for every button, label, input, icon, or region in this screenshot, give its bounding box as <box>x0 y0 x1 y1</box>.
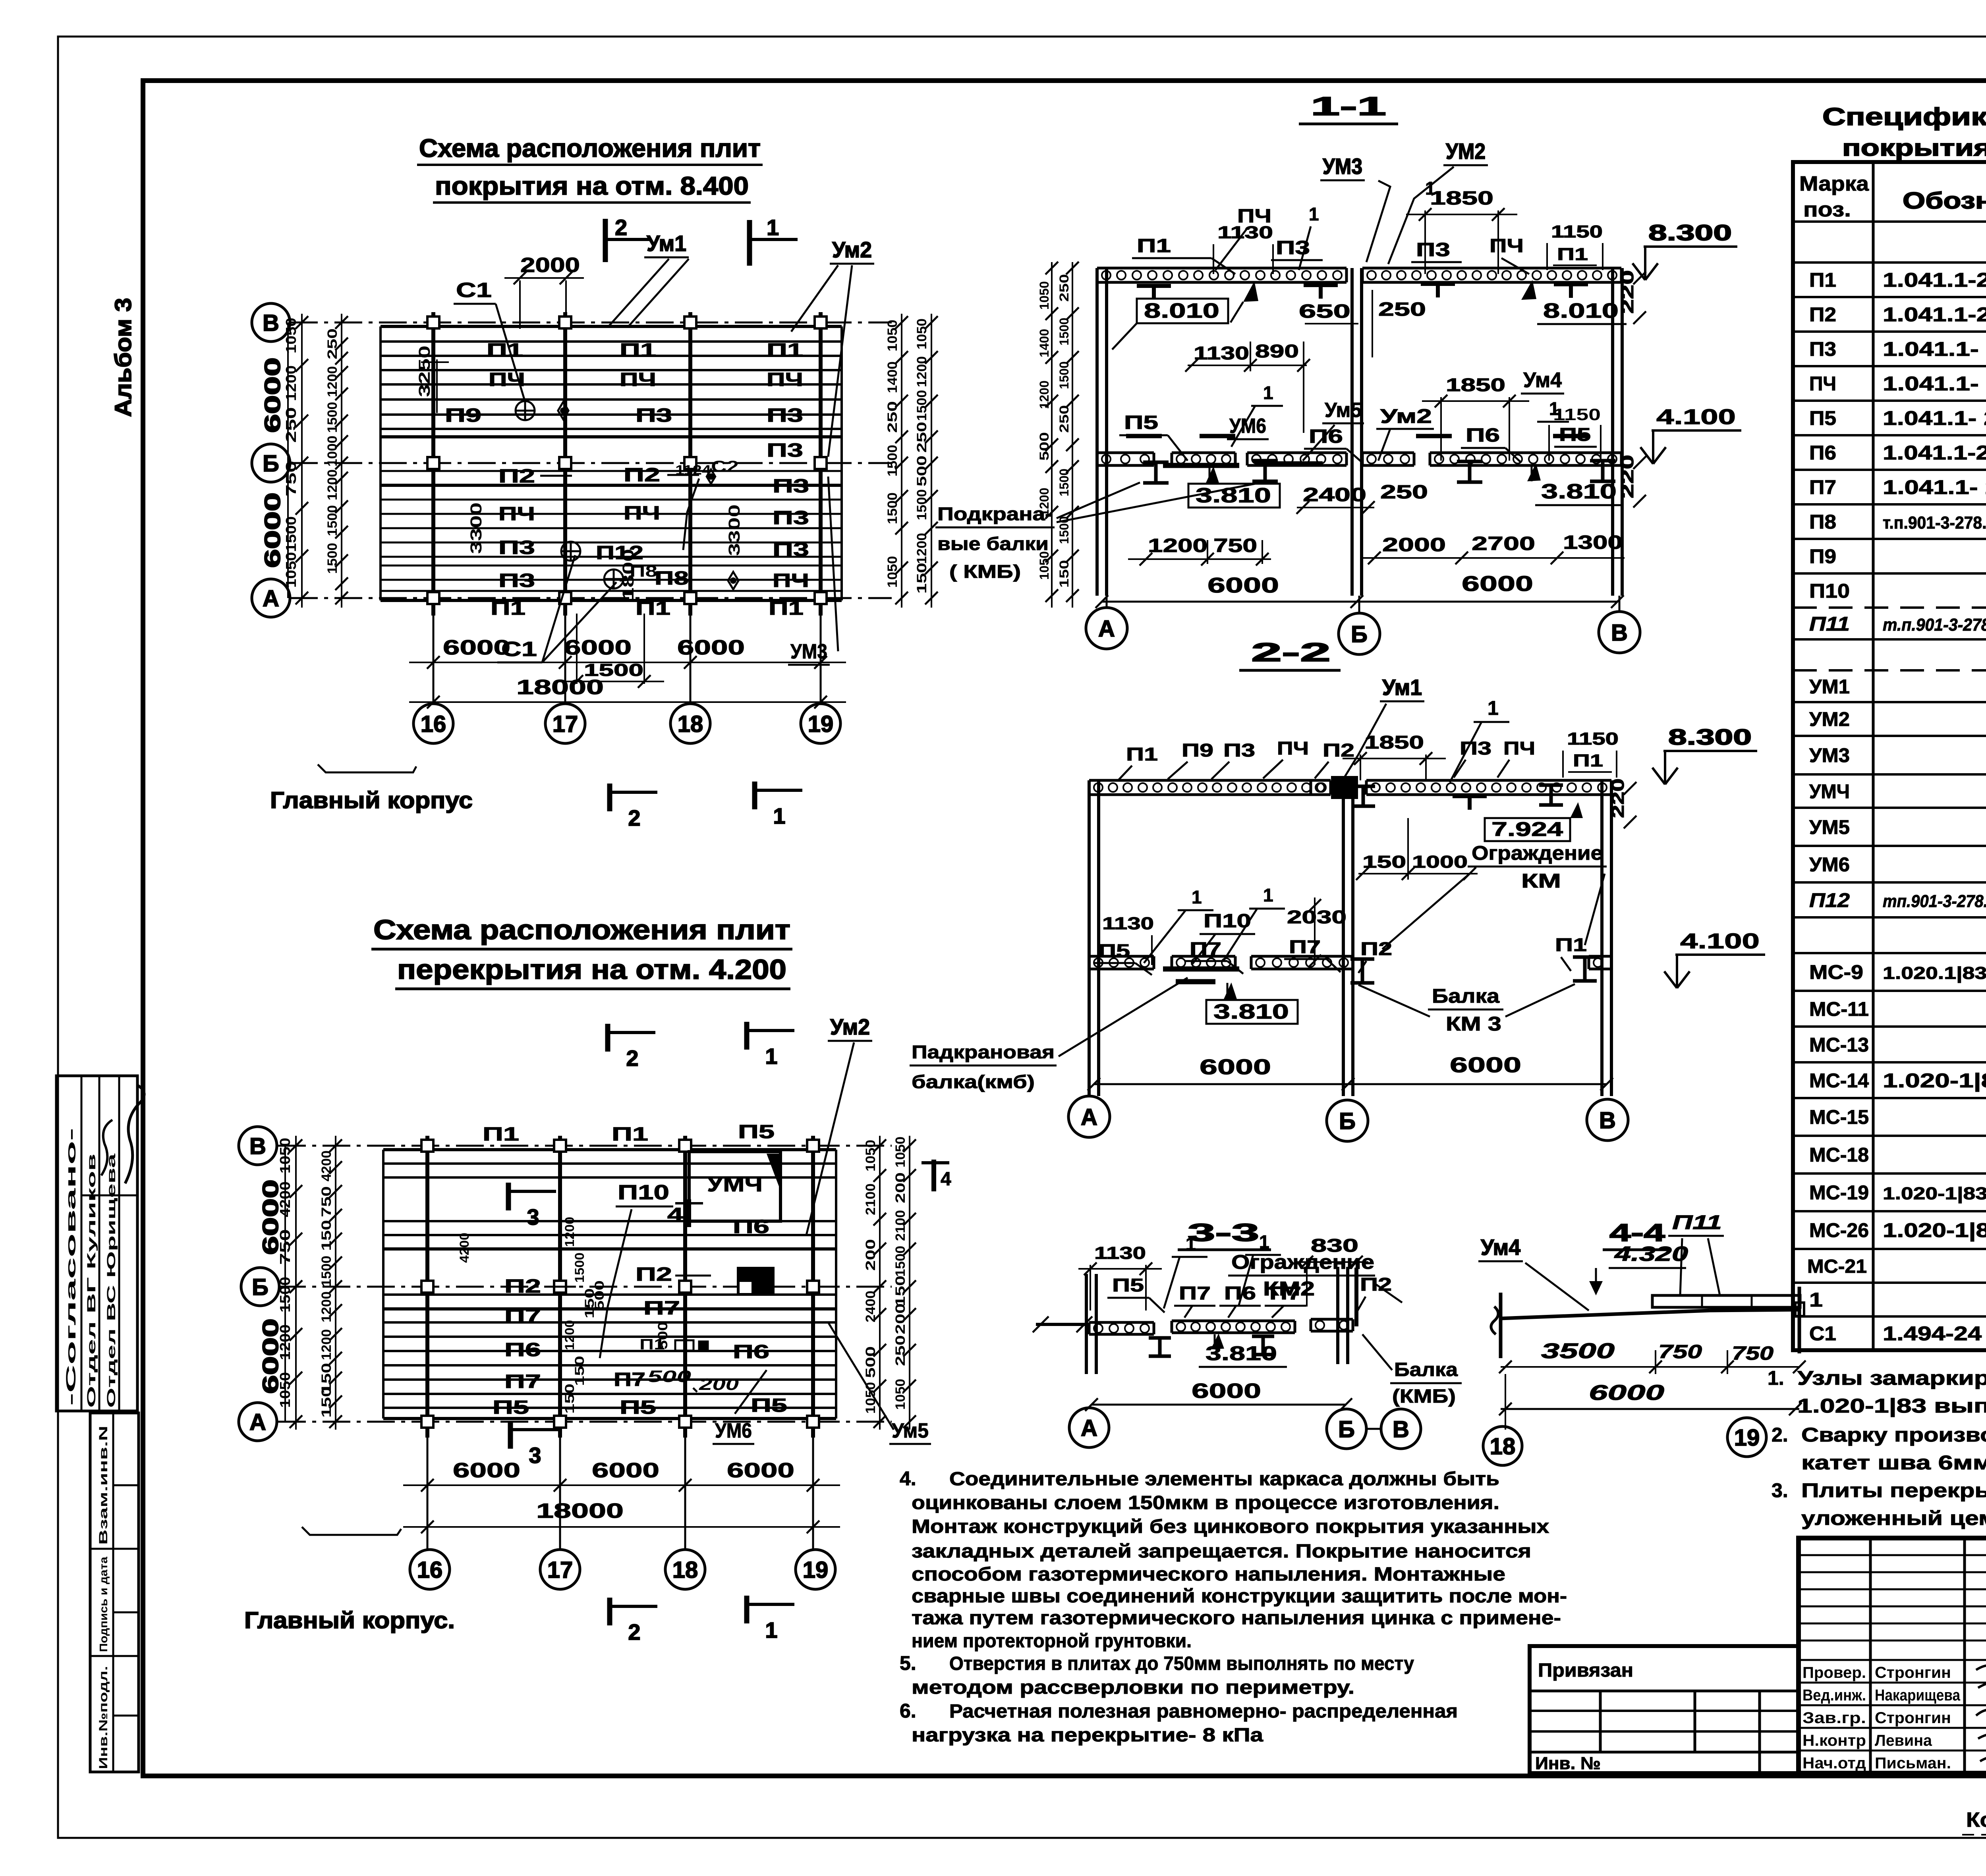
svg-text:П1: П1 <box>483 1124 519 1145</box>
svg-text:8.010: 8.010 <box>1144 299 1219 322</box>
svg-text:1300: 1300 <box>1563 532 1623 553</box>
svg-text:Б: Б <box>1339 1108 1356 1134</box>
svg-text:1500: 1500 <box>325 505 340 536</box>
svg-text:4.100: 4.100 <box>1680 929 1760 953</box>
svg-text:2030: 2030 <box>1287 907 1347 927</box>
svg-text:3300: 3300 <box>468 502 485 554</box>
svg-text:1130: 1130 <box>1094 1243 1146 1263</box>
svg-text:А: А <box>1081 1415 1097 1441</box>
svg-text:Копировал: Боброва: Копировал: Боброва <box>1966 1808 1986 1832</box>
svg-text:19: 19 <box>1734 1425 1760 1451</box>
svg-text:Б: Б <box>263 451 279 477</box>
attachment box (Привязан) <box>1530 1646 1799 1773</box>
plan 2 axis row А circle <box>239 1403 277 1441</box>
svg-text:6000: 6000 <box>1589 1381 1664 1405</box>
plan 2 Т4 section mark right <box>931 1160 936 1191</box>
svg-text:В: В <box>1393 1417 1409 1442</box>
svg-text:П3: П3 <box>498 570 535 591</box>
svg-text:2100: 2100 <box>893 1210 908 1241</box>
svg-text:2: 2 <box>628 805 640 830</box>
svg-text:4200: 4200 <box>319 1150 334 1181</box>
svg-text:А: А <box>263 586 279 612</box>
svg-text:500: 500 <box>863 1346 878 1378</box>
svg-text:200: 200 <box>893 1303 908 1334</box>
svg-text:1200: 1200 <box>562 1320 577 1350</box>
svg-text:1200: 1200 <box>319 1329 334 1360</box>
svg-text:17: 17 <box>547 1557 573 1583</box>
svg-text:Ум2: Ум2 <box>830 1014 870 1039</box>
svg-text:МС-21: МС-21 <box>1807 1256 1867 1277</box>
svg-text:покрытия и перекрытия на отм.8: покрытия и перекрытия на отм.8.400 и 4.2… <box>1842 135 1986 161</box>
svg-text:Ум5: Ум5 <box>892 1419 929 1442</box>
title block signatures squiggles <box>1976 1666 1986 1690</box>
svg-text:150: 150 <box>914 563 929 594</box>
svg-text:Ум4: Ум4 <box>1523 368 1562 392</box>
svg-text:1.041.1-2.1 200: 1.041.1-2.1 200 <box>1883 269 1986 291</box>
svg-text:1500: 1500 <box>885 445 900 477</box>
plan 2 bottom section mark 3 <box>508 1421 513 1449</box>
svg-text:750: 750 <box>319 1186 334 1217</box>
svg-text:Ум1: Ум1 <box>1382 675 1422 700</box>
svg-text:4: 4 <box>941 1169 951 1190</box>
svg-text:тажа путем газотермического: тажа путем газотермического напыления ци… <box>912 1608 1561 1629</box>
svg-text:1850: 1850 <box>1446 374 1505 395</box>
svg-text:П5: П5 <box>751 1395 787 1416</box>
svg-text:1: 1 <box>1263 382 1273 403</box>
svg-text:П12: П12 <box>1809 889 1850 911</box>
svg-text:250: 250 <box>325 328 340 359</box>
svg-text:Главный корпус.: Главный корпус. <box>244 1608 455 1633</box>
svg-text:-Согласовано-: -Согласовано- <box>64 1128 79 1406</box>
svg-text:3500: 3500 <box>1541 1339 1615 1363</box>
svg-text:2-2: 2-2 <box>1251 637 1331 667</box>
svg-text:сварные швы соединений конс: сварные швы соединений конструкции защит… <box>912 1586 1567 1607</box>
plan 2 grid column lines 16-19 <box>425 1136 429 1438</box>
svg-text:8.010: 8.010 <box>1543 299 1619 322</box>
section 3-3 slab band <box>1089 1321 1154 1324</box>
svg-text:ПЧ: ПЧ <box>498 504 535 525</box>
svg-text:1200: 1200 <box>914 533 929 564</box>
svg-text:ПЧ: ПЧ <box>1237 206 1271 227</box>
svg-text:Ум1: Ум1 <box>647 231 686 256</box>
svg-text:500: 500 <box>914 455 929 486</box>
svg-text:П6: П6 <box>504 1339 541 1361</box>
svg-text:18: 18 <box>678 711 703 737</box>
svg-text:С1: С1 <box>456 279 492 302</box>
svg-text:1: 1 <box>765 1617 777 1642</box>
svg-text:1.020-1|83 7-1 050: 1.020-1|83 7-1 050 <box>1883 1069 1986 1092</box>
svg-text:МС-18: МС-18 <box>1809 1144 1869 1166</box>
svg-text:6000: 6000 <box>1200 1055 1271 1079</box>
svg-text:1050: 1050 <box>1037 281 1051 310</box>
svg-text:3: 3 <box>529 1443 541 1468</box>
svg-text:1: 1 <box>1488 697 1499 719</box>
svg-text:П7: П7 <box>1269 1283 1301 1303</box>
svg-text:Схема расположения плит: Схема расположения плит <box>373 914 790 945</box>
svg-text:150: 150 <box>572 1356 587 1386</box>
svg-text:1200: 1200 <box>1037 488 1051 516</box>
section 2-2 top slab band <box>1089 779 1331 782</box>
svg-text:Отдел ВГ Куликов: Отдел ВГ Куликов <box>85 1154 98 1408</box>
svg-text:П3: П3 <box>767 405 803 426</box>
svg-text:1500: 1500 <box>572 1253 587 1283</box>
svg-text:П3: П3 <box>767 440 803 461</box>
svg-text:балка(кмб): балка(кмб) <box>912 1071 1035 1092</box>
svg-text:1.020-1|83 7-1 050-02: 1.020-1|83 7-1 050-02 <box>1883 1184 1986 1204</box>
svg-text:6000: 6000 <box>260 357 285 433</box>
svg-text:П7: П7 <box>643 1298 680 1319</box>
svg-text:поз.: поз. <box>1803 198 1851 221</box>
svg-text:1124: 1124 <box>675 463 711 478</box>
svg-text:1000: 1000 <box>325 436 340 467</box>
svg-text:П6: П6 <box>1309 426 1343 447</box>
section 4-4 right post <box>1798 1287 1801 1353</box>
svg-text:П8: П8 <box>1809 511 1836 533</box>
section 1-1 heavy beams under mid slab <box>1163 463 1239 468</box>
title block left rows thin <box>1799 1554 1986 1556</box>
svg-text:Зав.гр.: Зав.гр. <box>1802 1709 1866 1727</box>
svg-text:П7: П7 <box>504 1306 541 1327</box>
svg-text:4.: 4. <box>900 1467 916 1490</box>
svg-text:УМ1: УМ1 <box>1809 676 1850 698</box>
svg-text:750: 750 <box>283 461 299 496</box>
svg-text:В: В <box>1599 1108 1616 1133</box>
svg-text:П3: П3 <box>1460 738 1491 759</box>
svg-text:П3: П3 <box>1809 338 1836 360</box>
svg-text:4.320: 4.320 <box>1614 1243 1688 1266</box>
svg-text:1: 1 <box>773 803 785 828</box>
svg-text:Привязан: Привязан <box>1538 1660 1633 1681</box>
svg-text:Вед.инж.: Вед.инж. <box>1802 1687 1866 1704</box>
section 1-1 mid slab band <box>1097 452 1154 454</box>
svg-text:6000: 6000 <box>1207 573 1279 597</box>
svg-text:150: 150 <box>562 1384 577 1414</box>
plan 2 left dimension chains <box>295 1136 297 1430</box>
plan 2 section mark 1 (top) <box>744 1022 750 1050</box>
svg-text:П1: П1 <box>491 598 525 619</box>
svg-text:6000: 6000 <box>564 636 632 659</box>
svg-text:А: А <box>1081 1104 1097 1130</box>
section 1-1 T-seats under top slab <box>1137 284 1171 288</box>
svg-text:П2: П2 <box>1360 938 1392 959</box>
svg-text:Стронгин: Стронгин <box>1875 1664 1951 1681</box>
svg-text:тп.901-3-278.89КЖИ90.0.0.0-8: тп.901-3-278.89КЖИ90.0.0.0-8 <box>1883 892 1986 911</box>
section 4-4 beam line <box>1501 1310 1710 1318</box>
svg-text:6000: 6000 <box>1450 1053 1521 1077</box>
svg-text:1400: 1400 <box>1037 329 1051 357</box>
svg-text:6000: 6000 <box>258 1179 283 1255</box>
svg-text:Подпись и дата: Подпись и дата <box>97 1557 110 1652</box>
svg-text:1-1: 1-1 <box>1311 91 1386 121</box>
plan 1 axis row chain lines <box>290 322 892 324</box>
svg-text:МС-9: МС-9 <box>1809 961 1863 983</box>
svg-text:1050: 1050 <box>863 1382 878 1414</box>
section 2-2 mid slab band (left half) <box>1089 955 1154 958</box>
svg-text:Балка: Балка <box>1394 1359 1458 1380</box>
svg-text:220: 220 <box>1618 455 1637 498</box>
svg-text:П9: П9 <box>445 405 481 426</box>
section 1-1 top slab band <box>1097 267 1347 270</box>
svg-text:П1: П1 <box>612 1124 648 1145</box>
svg-text:2: 2 <box>628 1619 640 1644</box>
svg-text:6000: 6000 <box>260 492 285 568</box>
plan 1 axis row B circle <box>252 303 290 342</box>
svg-text:1500: 1500 <box>893 1246 908 1277</box>
svg-text:1050: 1050 <box>914 318 929 349</box>
svg-text:1200: 1200 <box>325 469 340 500</box>
svg-text:ПЧ: ПЧ <box>620 369 656 390</box>
svg-text:Спецификация к схеме расположе: Спецификация к схеме расположения плит <box>1822 103 1986 131</box>
plan 2 axis row Б circle <box>241 1268 279 1306</box>
svg-text:Отдел ВС Юрищева: Отдел ВС Юрищева <box>105 1153 118 1408</box>
svg-text:1: 1 <box>767 215 779 240</box>
svg-text:500: 500 <box>647 1367 691 1386</box>
svg-text:1850: 1850 <box>1364 732 1424 753</box>
svg-text:УМ2: УМ2 <box>1809 708 1850 730</box>
svg-text:1130: 1130 <box>1194 343 1249 363</box>
plan 2 bottom section marks 2 and 1 <box>607 1598 612 1625</box>
svg-text:КМ 3: КМ 3 <box>1446 1013 1501 1035</box>
svg-text:П10: П10 <box>1204 911 1251 932</box>
section 2-2 heavy beams under mid slab <box>1163 967 1239 972</box>
svg-text:П11: П11 <box>1809 613 1850 635</box>
svg-text:220: 220 <box>1618 270 1637 314</box>
svg-text:Монтаж конструкций без цинко: Монтаж конструкций без цинкового покрыти… <box>912 1516 1549 1537</box>
svg-text:МС-19: МС-19 <box>1809 1181 1869 1204</box>
svg-text:П1: П1 <box>1137 235 1171 257</box>
svg-text:250: 250 <box>283 407 299 443</box>
svg-text:1500: 1500 <box>325 402 340 433</box>
svg-text:150: 150 <box>1362 852 1406 872</box>
svg-text:1: 1 <box>765 1044 777 1069</box>
title block main box <box>1799 1538 1986 1773</box>
svg-text:П3: П3 <box>1416 239 1450 261</box>
svg-text:перекрытия на отм. 4.200: перекрытия на отм. 4.200 <box>397 954 786 985</box>
plan 2 black opening symbol <box>737 1267 775 1295</box>
svg-text:ПЧ: ПЧ <box>1809 372 1836 395</box>
svg-text:1500: 1500 <box>325 543 340 574</box>
svg-text:1200: 1200 <box>914 356 929 387</box>
plan 1 column squares at grid intersections <box>427 317 439 328</box>
svg-text:1050: 1050 <box>1037 551 1051 580</box>
svg-text:220: 220 <box>1608 778 1628 818</box>
plan 2 column squares <box>421 1140 433 1152</box>
svg-text:6000: 6000 <box>677 636 745 659</box>
svg-text:6000: 6000 <box>443 636 510 659</box>
svg-text:Б: Б <box>1338 1417 1355 1442</box>
svg-text:П9: П9 <box>1809 545 1836 567</box>
svg-text:Б: Б <box>1351 621 1368 647</box>
svg-text:1: 1 <box>1809 1289 1823 1311</box>
section 2-2 axis circles А Б В <box>1068 1096 1110 1137</box>
svg-text:П3: П3 <box>498 537 535 558</box>
section 2-2 monolith block at Ум1 <box>1333 778 1356 797</box>
svg-text:18000: 18000 <box>536 1500 624 1523</box>
svg-text:1050: 1050 <box>283 318 299 353</box>
approval signatures squiggle <box>125 1085 144 1183</box>
svg-text:500: 500 <box>592 1280 607 1310</box>
svg-text:1500: 1500 <box>1057 318 1071 345</box>
section 2-2 right railing I-beams <box>1350 957 1374 961</box>
inventory strip box (Инв №, Подпись, Взам) <box>90 1413 139 1772</box>
svg-text:Плиты перекрытия и покрытця: Плиты перекрытия и покрытця укладывать н… <box>1801 1479 1986 1502</box>
plan 2 slab field horizontal lines <box>383 1148 836 1151</box>
svg-text:6000: 6000 <box>1192 1380 1261 1403</box>
svg-text:3.: 3. <box>1772 1479 1788 1502</box>
svg-text:4.100: 4.100 <box>1656 405 1736 429</box>
svg-text:Падкрановая: Падкрановая <box>912 1042 1055 1062</box>
svg-text:уложенный цементный раствор: уложенный цементный раствор марки 100. <box>1801 1507 1986 1529</box>
svg-text:П6: П6 <box>1224 1283 1256 1303</box>
svg-text:3300: 3300 <box>726 504 743 556</box>
svg-text:250: 250 <box>1057 274 1071 302</box>
svg-text:нагрузка на перекрытие- 8 к: нагрузка на перекрытие- 8 кПа <box>912 1725 1263 1746</box>
svg-text:1200: 1200 <box>562 1217 577 1247</box>
svg-text:МС-14: МС-14 <box>1809 1069 1869 1092</box>
svg-text:3250: 3250 <box>416 345 433 397</box>
svg-text:18000: 18000 <box>516 676 604 699</box>
svg-text:1050: 1050 <box>885 320 900 351</box>
section 1-1 columns <box>1095 268 1099 596</box>
svg-text:1500: 1500 <box>1057 469 1071 496</box>
svg-text:890: 890 <box>1255 341 1299 361</box>
svg-text:П5: П5 <box>738 1121 775 1143</box>
plan 1 section mark 1 (top) <box>747 220 752 266</box>
svg-text:ПЧ: ПЧ <box>1277 738 1309 759</box>
svg-text:1050: 1050 <box>893 1379 908 1410</box>
plan 1 slab field horizontal lines <box>381 325 842 328</box>
title block column lines <box>1869 1538 1872 1773</box>
svg-text:17: 17 <box>553 711 578 737</box>
svg-text:16: 16 <box>421 711 446 737</box>
svg-text:Соединительные элементы карк: Соединительные элементы каркаса должны б… <box>949 1469 1499 1490</box>
svg-text:С2: С2 <box>711 458 739 475</box>
svg-text:Обозначение: Обозначение <box>1903 188 1986 214</box>
svg-text:ПЧ: ПЧ <box>767 369 803 390</box>
svg-text:1.041.1- 2.1 100-02: 1.041.1- 2.1 100-02 <box>1883 476 1986 498</box>
plan 1 left dimension chain verticals <box>301 314 303 608</box>
svg-text:А: А <box>249 1409 266 1435</box>
svg-text:П2: П2 <box>624 465 660 486</box>
section 4-4 left post anchor <box>1499 1293 1503 1358</box>
svg-text:1850: 1850 <box>1430 188 1493 209</box>
svg-text:1.020.1|83 7-1 030-01: 1.020.1|83 7-1 030-01 <box>1883 963 1986 983</box>
svg-text:750: 750 <box>1213 535 1257 556</box>
svg-text:КМ: КМ <box>1521 870 1561 892</box>
approval strip box (Согласовано) <box>56 1076 137 1411</box>
svg-text:П1: П1 <box>1573 751 1603 770</box>
svg-text:250: 250 <box>1380 482 1428 503</box>
svg-text:В: В <box>1611 620 1628 646</box>
section 4-4 slab piece П11 <box>1652 1295 1800 1307</box>
svg-text:П2: П2 <box>1360 1274 1392 1295</box>
svg-text:8.300: 8.300 <box>1668 724 1752 749</box>
svg-text:8.300: 8.300 <box>1648 220 1732 245</box>
svg-text:3-3: 3-3 <box>1188 1219 1259 1247</box>
svg-text:Письман.: Письман. <box>1875 1754 1951 1772</box>
section 4-4 grid circles 18 19 <box>1483 1426 1522 1465</box>
svg-text:1: 1 <box>1425 178 1435 199</box>
svg-text:250: 250 <box>1057 405 1071 433</box>
svg-text:В: В <box>249 1133 266 1159</box>
svg-text:ПЧ: ПЧ <box>624 503 660 524</box>
svg-text:УМ6: УМ6 <box>715 1419 752 1442</box>
svg-text:П1: П1 <box>1557 245 1588 264</box>
svg-text:Ум2: Ум2 <box>1380 405 1432 427</box>
svg-text:Альбом 3: Альбом 3 <box>110 298 136 417</box>
svg-text:нием протекторной грунтовки.: нием протекторной грунтовки. <box>912 1631 1192 1652</box>
svg-text:1: 1 <box>1259 1231 1269 1252</box>
section 3-3 axis circles А Б В <box>1069 1408 1109 1448</box>
svg-text:Ум4: Ум4 <box>1481 1235 1520 1260</box>
svg-text:19: 19 <box>803 1557 829 1583</box>
svg-text:250: 250 <box>885 401 900 433</box>
svg-text:П11: П11 <box>1672 1211 1722 1233</box>
svg-text:П6: П6 <box>1809 442 1836 464</box>
plan 1 bottom section marks 2 and 1 <box>607 784 612 811</box>
section 3-3 columns and posts <box>1085 1274 1088 1374</box>
svg-text:1200: 1200 <box>325 366 340 397</box>
svg-text:С1: С1 <box>1809 1322 1836 1345</box>
svg-text:1.494-24 вып.1: 1.494-24 вып.1 <box>1883 1322 1986 1345</box>
svg-text:200: 200 <box>863 1239 878 1271</box>
svg-text:П8: П8 <box>630 563 657 580</box>
svg-text:1500: 1500 <box>319 1256 334 1287</box>
svg-text:ПЧ: ПЧ <box>489 369 525 390</box>
svg-text:П1: П1 <box>769 598 804 619</box>
svg-text:покрытия на отм. 8.400: покрытия на отм. 8.400 <box>435 172 749 200</box>
svg-text:П1: П1 <box>767 340 803 361</box>
svg-text:Ум2: Ум2 <box>832 237 872 262</box>
svg-text:Стронгин: Стронгин <box>1875 1709 1951 1727</box>
svg-text:ПЧ: ПЧ <box>1503 738 1535 759</box>
svg-text:6000: 6000 <box>592 1459 659 1482</box>
svg-text:П5: П5 <box>620 1397 656 1418</box>
svg-text:(КМБ): (КМБ) <box>1392 1386 1456 1407</box>
section 1-1 left dimension chain <box>1072 262 1073 608</box>
svg-text:т.п.901-3-278,89КЖ.И60.0.0.0: т.п.901-3-278,89КЖ.И60.0.0.0 <box>1883 615 1986 635</box>
svg-text:вые балки: вые балки <box>937 533 1049 554</box>
svg-text:П2: П2 <box>1323 740 1354 760</box>
svg-text:1.020-1|83 7-1 080: 1.020-1|83 7-1 080 <box>1883 1219 1986 1242</box>
svg-text:П6: П6 <box>1466 425 1500 446</box>
svg-text:5.: 5. <box>900 1652 916 1674</box>
svg-text:П7: П7 <box>1289 936 1321 957</box>
svg-text:П7: П7 <box>614 1369 645 1390</box>
section 1-1 axis circles А Б В <box>1086 608 1127 649</box>
svg-text:1050: 1050 <box>863 1140 878 1172</box>
svg-text:Марка: Марка <box>1799 172 1869 195</box>
svg-text:Расчетная полезная равномерн: Расчетная полезная равномерно- распредел… <box>949 1701 1458 1722</box>
svg-text:МС-15: МС-15 <box>1809 1106 1869 1128</box>
svg-text:т.п.901-3-278.89 КЖ.И 90.0.0.0: т.п.901-3-278.89 КЖ.И 90.0.0.0 <box>1883 513 1986 533</box>
svg-text:методом рассверловки по пер: методом рассверловки по периметру. <box>912 1677 1354 1698</box>
svg-text:Подкрана-: Подкрана- <box>937 504 1053 524</box>
svg-text:1150: 1150 <box>1553 405 1601 424</box>
svg-text:200: 200 <box>893 1172 908 1203</box>
svg-text:УМЧ: УМЧ <box>1809 780 1850 803</box>
svg-text:1150: 1150 <box>1551 222 1603 241</box>
svg-text:П7: П7 <box>1179 1283 1211 1303</box>
svg-text:1050: 1050 <box>283 552 299 588</box>
svg-text:МС-26: МС-26 <box>1809 1219 1869 1241</box>
svg-text:Н.контр: Н.контр <box>1802 1732 1866 1749</box>
svg-text:3.810: 3.810 <box>1213 1000 1289 1023</box>
svg-text:Ум5: Ум5 <box>1325 399 1362 422</box>
svg-text:1.041.1- 2.1 300: 1.041.1- 2.1 300 <box>1883 338 1986 360</box>
svg-text:П10: П10 <box>1809 580 1850 602</box>
svg-text:500: 500 <box>655 1322 670 1349</box>
